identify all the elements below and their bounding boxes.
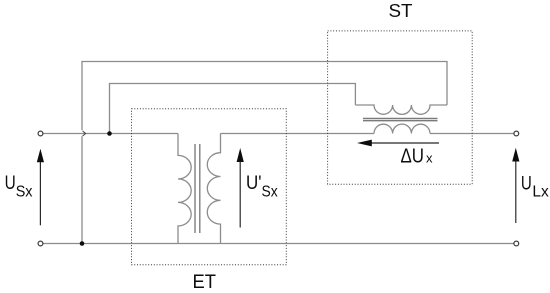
svg-text:ΔU: ΔU bbox=[401, 146, 425, 168]
dotted box ET bbox=[132, 109, 287, 265]
transformer ET secondary winding bbox=[207, 134, 220, 244]
transformer ST series winding (on main line) bbox=[374, 124, 430, 133]
label delta-Ux bbox=[401, 146, 433, 168]
wire bypass A (x=82 vertical, top horizontal, down to ST right) bbox=[82, 62, 447, 244]
svg-text:U: U bbox=[5, 172, 16, 194]
svg-text:U': U' bbox=[246, 172, 262, 194]
wire bottom return line bbox=[43, 243, 515, 245]
junction dot on bottom line at x=82 bbox=[80, 241, 85, 246]
arrow U'_Sx (ET secondary voltage) bbox=[237, 148, 244, 228]
terminal input top bbox=[38, 131, 43, 136]
transformer ST control winding (top) bbox=[355, 105, 447, 114]
transformer ET core bbox=[195, 144, 200, 233]
arrow delta-Ux (series injected voltage) bbox=[357, 140, 439, 147]
dotted box ST bbox=[328, 31, 473, 184]
svg-text:Lx: Lx bbox=[532, 183, 548, 200]
svg-text:Sx: Sx bbox=[262, 184, 278, 201]
arrow U_Lx (right voltage arrow) bbox=[512, 148, 519, 223]
terminal input bottom bbox=[38, 241, 43, 246]
label U'_Sx bbox=[246, 172, 278, 201]
terminal output bottom bbox=[514, 241, 519, 246]
svg-text:ST: ST bbox=[389, 0, 413, 21]
label U_Sx bbox=[5, 172, 33, 200]
arrow U_Sx (left voltage arrow) bbox=[37, 149, 44, 226]
wire bypass B (x=109.5 vertical, horizontal y=83.5, down to ST left) bbox=[110, 84, 356, 134]
wire main top line left segment bbox=[43, 133, 179, 135]
label U_Lx bbox=[521, 172, 549, 200]
transformer ST core bbox=[363, 119, 438, 121]
svg-text:U: U bbox=[521, 172, 532, 194]
wire main top line right segment bbox=[430, 133, 514, 135]
terminal output top bbox=[514, 131, 519, 136]
svg-text:Sx: Sx bbox=[16, 183, 33, 200]
svg-text:ET: ET bbox=[193, 271, 217, 293]
transformer ET primary winding bbox=[178, 134, 191, 244]
wire main top line middle segment bbox=[221, 133, 375, 135]
flow chevron on main line at x=84 bbox=[83, 131, 86, 136]
junction dot on main line at x=109.5 bbox=[107, 131, 112, 136]
svg-text:x: x bbox=[426, 151, 433, 166]
